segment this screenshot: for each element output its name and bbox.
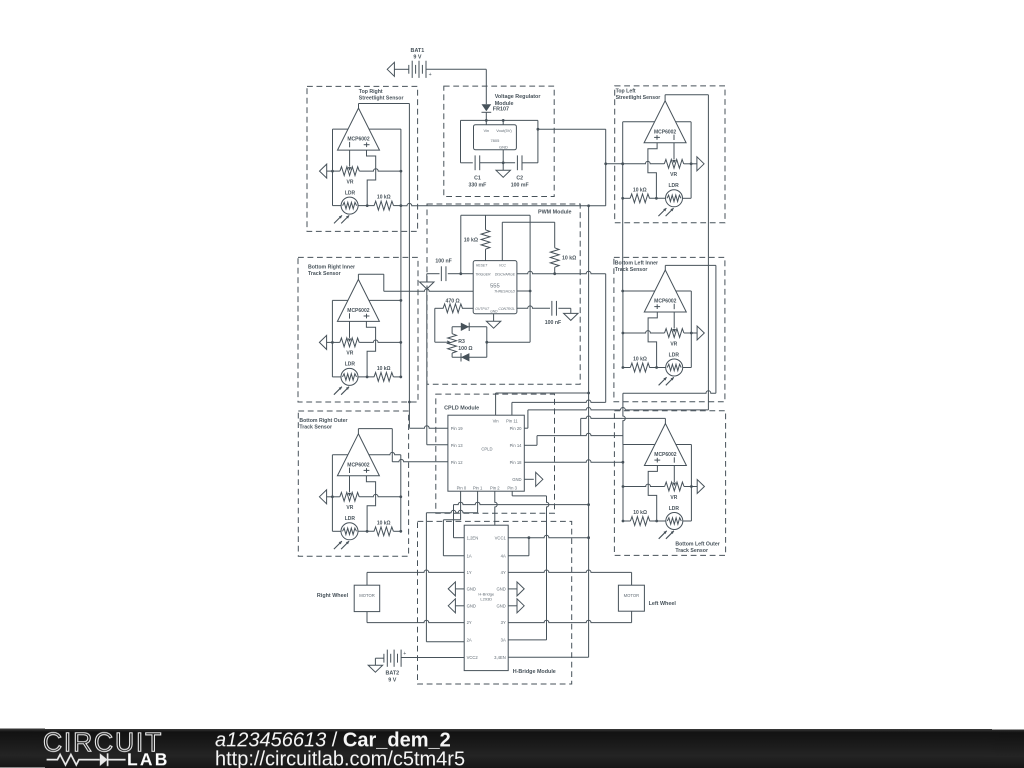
svg-text:VR: VR — [670, 341, 677, 347]
svg-text:MCP6002: MCP6002 — [654, 299, 676, 305]
svg-text:R3: R3 — [458, 339, 465, 345]
svg-text:FR107: FR107 — [493, 107, 509, 113]
svg-text:100 nF: 100 nF — [545, 320, 561, 326]
svg-text:Pin 3: Pin 3 — [507, 485, 517, 490]
svg-text:Pin 13: Pin 13 — [451, 443, 464, 448]
svg-text:3Y: 3Y — [501, 620, 506, 625]
svg-text:4A: 4A — [501, 553, 506, 558]
svg-text:MCP6002: MCP6002 — [347, 462, 369, 468]
svg-text:GND: GND — [496, 603, 505, 608]
svg-text:3A: 3A — [501, 638, 506, 643]
svg-text:1,2EN: 1,2EN — [467, 535, 479, 540]
svg-text:MOTOR: MOTOR — [624, 593, 640, 598]
svg-text:100 mF: 100 mF — [511, 182, 529, 188]
svg-text:Pin 0: Pin 0 — [457, 485, 467, 490]
svg-text:LAB: LAB — [127, 749, 170, 768]
svg-text:VR: VR — [670, 172, 677, 178]
svg-text:+: + — [429, 72, 432, 78]
svg-text:10 kΩ: 10 kΩ — [633, 187, 647, 193]
svg-text:GND: GND — [490, 310, 498, 314]
svg-text:LDR: LDR — [669, 352, 680, 358]
svg-text:9 V: 9 V — [413, 55, 421, 61]
svg-text:1Y: 1Y — [467, 570, 472, 575]
svg-text:Pin 19: Pin 19 — [451, 426, 464, 431]
svg-text:VCC2: VCC2 — [467, 655, 479, 660]
svg-text:CONTROL: CONTROL — [498, 307, 515, 311]
svg-text:MCP6002: MCP6002 — [654, 452, 676, 458]
svg-text:Pin 18: Pin 18 — [510, 460, 523, 465]
svg-text:VCC: VCC — [499, 264, 507, 268]
svg-text:BAT2: BAT2 — [385, 671, 399, 677]
svg-text:4Y: 4Y — [501, 570, 506, 575]
svg-text:CPLD: CPLD — [481, 446, 492, 451]
svg-text:PWM Module: PWM Module — [538, 209, 572, 215]
svg-text:Track Sensor: Track Sensor — [308, 271, 341, 277]
svg-text:Track Sensor: Track Sensor — [615, 267, 648, 273]
svg-text:MCP6002: MCP6002 — [654, 129, 676, 135]
svg-text:Streetlight Sensor: Streetlight Sensor — [359, 96, 404, 102]
svg-text:Pin 20: Pin 20 — [510, 426, 523, 431]
svg-text:LDR: LDR — [669, 506, 680, 512]
svg-text:Pin 1: Pin 1 — [473, 485, 483, 490]
svg-text:10 kΩ: 10 kΩ — [377, 520, 391, 526]
svg-text:Pin 2: Pin 2 — [490, 485, 500, 490]
svg-text:GND: GND — [496, 587, 505, 592]
svg-text:9 V: 9 V — [388, 677, 396, 683]
svg-text:Vin: Vin — [493, 418, 500, 423]
svg-text:3,4EN: 3,4EN — [494, 655, 506, 660]
svg-text:OUTPUT: OUTPUT — [475, 307, 490, 311]
svg-text:Pin 11: Pin 11 — [506, 418, 518, 423]
svg-text:MCP6002: MCP6002 — [347, 308, 369, 314]
svg-text:MCP6002: MCP6002 — [347, 137, 369, 143]
svg-text:Streetlight Sensor: Streetlight Sensor — [616, 95, 661, 101]
svg-text:2A: 2A — [467, 638, 472, 643]
svg-text:Left Wheel: Left Wheel — [649, 601, 677, 607]
svg-text:10 kΩ: 10 kΩ — [633, 357, 647, 363]
svg-text:MOTOR: MOTOR — [359, 593, 375, 598]
svg-text:CPLD Module: CPLD Module — [444, 405, 479, 411]
svg-text:RESET: RESET — [476, 264, 488, 268]
svg-text:7805: 7805 — [490, 138, 500, 143]
svg-text:10 kΩ: 10 kΩ — [633, 510, 647, 516]
svg-text:Bottom Right Inner: Bottom Right Inner — [308, 265, 355, 271]
svg-text:Pin 14: Pin 14 — [510, 443, 523, 448]
svg-text:100 nF: 100 nF — [435, 259, 451, 265]
svg-text:LDR: LDR — [345, 362, 356, 368]
svg-text:Top Right: Top Right — [359, 89, 383, 95]
svg-text:2Y: 2Y — [467, 620, 472, 625]
svg-text:1A: 1A — [467, 553, 472, 558]
svg-text:470 Ω: 470 Ω — [445, 298, 459, 304]
svg-text:GND: GND — [467, 587, 476, 592]
svg-text:Bottom Right Outer: Bottom Right Outer — [299, 418, 347, 424]
svg-text:TRIGGER: TRIGGER — [475, 272, 491, 276]
svg-text:100 Ω: 100 Ω — [458, 346, 472, 352]
svg-text:Pin 12: Pin 12 — [451, 460, 464, 465]
svg-text:VR: VR — [347, 179, 354, 185]
svg-text:L293D: L293D — [480, 597, 492, 602]
svg-text:330 mF: 330 mF — [468, 182, 486, 188]
svg-text:10 kΩ: 10 kΩ — [377, 195, 391, 201]
svg-text:GND: GND — [512, 477, 521, 482]
svg-text:VR: VR — [670, 495, 677, 501]
svg-text:GND: GND — [467, 603, 476, 608]
svg-text:LDR: LDR — [668, 183, 679, 189]
svg-text:C1: C1 — [474, 176, 481, 182]
svg-text:THRESHOLD: THRESHOLD — [494, 290, 515, 294]
svg-text:Bottom Left Inner: Bottom Left Inner — [615, 260, 658, 266]
svg-text:GND: GND — [499, 145, 508, 150]
svg-text:Top Left: Top Left — [616, 89, 636, 95]
svg-text:Bottom Left Outer: Bottom Left Outer — [675, 542, 719, 548]
svg-text:Track Sensor: Track Sensor — [299, 425, 332, 431]
svg-text:Right Wheel: Right Wheel — [317, 593, 349, 599]
svg-text:H-Bridge Module: H-Bridge Module — [513, 669, 556, 675]
svg-text:Vout(5V): Vout(5V) — [496, 128, 512, 133]
svg-text:Track Sensor: Track Sensor — [675, 548, 708, 554]
svg-text:Vin: Vin — [483, 128, 489, 133]
svg-text:LDR: LDR — [345, 516, 356, 522]
svg-text:VR: VR — [346, 505, 353, 511]
svg-text:10 kΩ: 10 kΩ — [377, 366, 391, 372]
svg-text:10 kΩ: 10 kΩ — [562, 256, 576, 262]
svg-text:C2: C2 — [516, 176, 523, 182]
svg-text:LDR: LDR — [345, 190, 356, 196]
svg-text:VCC1: VCC1 — [495, 535, 507, 540]
svg-text:555: 555 — [490, 283, 500, 289]
svg-text:BAT1: BAT1 — [411, 48, 425, 54]
svg-text:Voltage Regulator: Voltage Regulator — [495, 94, 542, 100]
svg-text:http://circuitlab.com/c5tm4r5: http://circuitlab.com/c5tm4r5 — [215, 748, 465, 768]
svg-text:VR: VR — [346, 351, 353, 357]
svg-text:10 kΩ: 10 kΩ — [464, 238, 478, 244]
svg-text:+: + — [403, 651, 406, 657]
svg-text:DISCHARGE: DISCHARGE — [495, 272, 516, 276]
